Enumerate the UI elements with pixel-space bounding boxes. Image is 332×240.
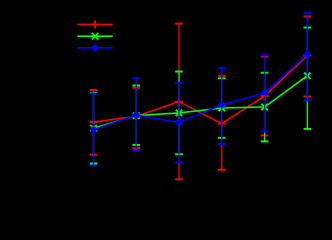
- legend red sample line: [77, 20, 112, 28]
- red point markers (+): [90, 51, 312, 127]
- green point markers (x): [90, 73, 310, 132]
- green data line: [94, 76, 308, 128]
- red data line: [94, 55, 308, 123]
- green series error bar col2: [133, 86, 141, 145]
- legend blue sample line: [77, 45, 112, 52]
- legend red marker (+): [91, 20, 99, 28]
- blue series error bar col6: [304, 13, 312, 101]
- red series error bar col2: [133, 88, 141, 149]
- red series error bar col5: [261, 57, 269, 136]
- green series error bar col1: [90, 93, 98, 164]
- green series error bar col4: [218, 78, 226, 138]
- legend green sample line: [77, 33, 112, 40]
- blue data line: [94, 54, 308, 129]
- red series error bar col1: [90, 90, 98, 155]
- blue series error bar col1: [90, 94, 98, 166]
- green series error bar col3: [175, 72, 183, 155]
- blue series error bar col5: [261, 55, 269, 131]
- legend blue marker (asterisk): [92, 45, 99, 52]
- blue series error bar col4: [218, 68, 226, 144]
- red series error bar col4: [218, 76, 226, 170]
- blue series error bar col2: [133, 78, 141, 150]
- blue point markers (asterisk): [90, 51, 310, 133]
- red series error bar col6: [304, 16, 312, 96]
- blue series error bar col3: [175, 83, 183, 163]
- red series error bar col3: [175, 24, 183, 180]
- green series error bar col6: [304, 28, 312, 129]
- green series error bar col5: [261, 73, 269, 142]
- legend green marker (x): [92, 33, 99, 40]
